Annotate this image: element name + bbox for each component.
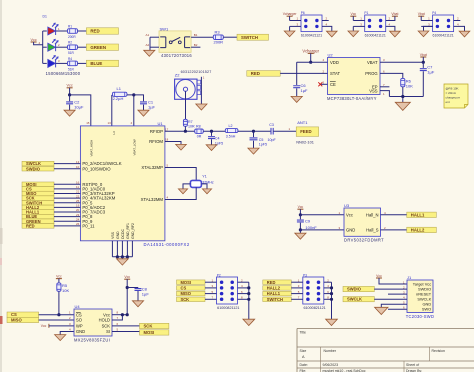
ground (P4 left) xyxy=(418,31,429,37)
svg-text:21: 21 xyxy=(76,190,80,194)
port HALL2 xyxy=(407,227,437,232)
svg-text:CS: CS xyxy=(181,285,187,290)
port MOSI (U1 side) xyxy=(22,182,54,187)
wire P4 pin3 to ground xyxy=(424,26,433,31)
wire RFIOM to ground xyxy=(165,142,181,145)
port SWITCH (P3) xyxy=(263,297,292,302)
wire LED cathode 2 xyxy=(56,46,68,48)
wire MOSI to U1 xyxy=(54,183,80,185)
svg-text:SWITCH: SWITCH xyxy=(267,297,283,302)
wire U4 SI pin xyxy=(112,331,140,333)
ground (U1) xyxy=(117,259,129,265)
svg-text:150066M153000: 150066M153000 xyxy=(46,71,81,76)
svg-text:C3: C3 xyxy=(269,123,274,127)
ground (P4 right) xyxy=(459,31,470,37)
ground (P2) xyxy=(243,319,255,325)
wire buzzer pins to ground xyxy=(200,77,202,104)
wire HALL2 to P3 xyxy=(291,287,303,289)
svg-text:L1: L1 xyxy=(117,86,122,91)
wire R5 to CS net xyxy=(58,291,60,314)
capacitor C1 xyxy=(140,102,147,104)
svg-text:Sheet of: Sheet of xyxy=(406,363,419,367)
wire J1 GND xyxy=(381,304,407,307)
svg-text:Vcharger: Vcharger xyxy=(302,48,319,53)
svg-text:VSS: VSS xyxy=(369,89,378,94)
ground (U4) xyxy=(55,335,66,341)
wire crystal gnd left xyxy=(183,184,190,189)
IC U3 DRV5032 body xyxy=(344,208,381,236)
wire to C1 xyxy=(134,95,144,101)
svg-text:R8: R8 xyxy=(196,124,201,128)
wire C9 to ground xyxy=(299,230,301,233)
ground (P6 left) xyxy=(284,31,295,37)
crystal Y1 xyxy=(190,180,201,187)
wire SWO stub xyxy=(388,308,407,310)
junction C5 node xyxy=(252,130,255,133)
junction Vcc/C9 xyxy=(299,213,302,216)
wire MISO to U4 xyxy=(39,319,74,321)
svg-text:CS: CS xyxy=(76,312,82,317)
port SCK (U1 side) xyxy=(22,196,54,201)
svg-text:BLUE: BLUE xyxy=(90,61,102,66)
svg-text:MOSI: MOSI xyxy=(144,330,155,335)
svg-text:VSS: VSS xyxy=(111,231,115,239)
svg-text:10R: 10R xyxy=(188,124,195,128)
svg-text:3.5nH: 3.5nH xyxy=(226,134,236,138)
port GREEN xyxy=(86,44,118,50)
capacitor C2 xyxy=(69,95,71,101)
capacitor C4 xyxy=(211,131,213,136)
svg-text:10µF: 10µF xyxy=(74,105,84,110)
svg-text:0R: 0R xyxy=(197,135,202,139)
svg-text:Y1: Y1 xyxy=(202,175,206,179)
svg-text:20: 20 xyxy=(76,208,80,212)
capacitor C9 xyxy=(299,215,301,220)
svg-text:MX25V8035FZUI: MX25V8035FZUI xyxy=(74,337,110,342)
svg-text:VBAT: VBAT xyxy=(367,60,378,65)
wire U3 Vcc pin xyxy=(300,214,344,216)
port RED (charger STAT) xyxy=(247,71,280,77)
svg-text:STAT: STAT xyxy=(330,71,341,76)
port RED xyxy=(86,28,118,34)
svg-text:MOSI: MOSI xyxy=(181,280,191,285)
wire U1 ground pins xyxy=(111,241,113,257)
svg-text:HALL1: HALL1 xyxy=(267,291,281,296)
svg-text:ANT1: ANT1 xyxy=(297,120,308,125)
sheet edge line xyxy=(0,0,2,372)
capacitor C7 xyxy=(422,62,424,68)
resistor R4 xyxy=(68,61,78,66)
svg-text:HALL1: HALL1 xyxy=(411,212,425,217)
wire SWITCH to P3 xyxy=(291,298,303,300)
pin CE no-ERC xyxy=(320,83,327,85)
IC U1 DA14531 body xyxy=(80,126,164,241)
LED D1 green element xyxy=(48,43,56,51)
IC U4 MX25V8035 body xyxy=(74,309,112,336)
svg-text:SWO: SWO xyxy=(422,307,431,312)
port SWCLK xyxy=(22,161,54,166)
svg-text:1µF: 1µF xyxy=(301,88,309,93)
ground (C4) xyxy=(206,145,217,151)
wire U4 Vcc pin xyxy=(112,314,127,316)
svg-text:VDD: VDD xyxy=(330,60,339,65)
svg-text:Vcc: Vcc xyxy=(103,312,110,317)
svg-text:23: 23 xyxy=(76,213,80,217)
svg-text:26: 26 xyxy=(76,222,80,226)
svg-text:SI: SI xyxy=(106,329,110,334)
svg-text:@R6 10K: @R6 10K xyxy=(446,86,459,90)
svg-text:MCP73830LT-0AAI/MYY: MCP73830LT-0AAI/MYY xyxy=(327,96,377,101)
inductor L2 xyxy=(225,129,238,133)
wire SWITCH to U1 xyxy=(54,202,80,204)
svg-text:SCK: SCK xyxy=(102,324,111,329)
svg-text:RED: RED xyxy=(26,223,35,228)
wire LX xyxy=(111,95,113,126)
svg-text:2.2µH: 2.2µH xyxy=(113,96,124,101)
resistor R2 xyxy=(68,45,78,50)
wire nRESET stub xyxy=(388,293,407,295)
junction C9/GND xyxy=(299,228,302,231)
wire HALL2 to U1 xyxy=(54,206,80,208)
svg-text:61000421121: 61000421121 xyxy=(433,34,454,38)
svg-text:TC2030-SWD: TC2030-SWD xyxy=(406,314,434,319)
header P2 body xyxy=(217,277,238,304)
svg-text:Size: Size xyxy=(300,349,307,353)
svg-text:HALL2: HALL2 xyxy=(267,285,281,290)
svg-text:16: 16 xyxy=(76,181,80,185)
svg-text:430172073016: 430172073016 xyxy=(161,53,192,58)
svg-text:R3: R3 xyxy=(215,30,221,35)
svg-text:10pF: 10pF xyxy=(268,138,277,142)
port SWITCH xyxy=(237,34,269,40)
port SCK (P2) xyxy=(177,297,206,302)
header P1 pin4 to ground xyxy=(386,26,395,31)
junction gnd bus xyxy=(401,95,404,98)
wire Hall_N xyxy=(381,214,407,216)
ground (P6 right) xyxy=(326,31,337,37)
ground (RFIOM) xyxy=(176,144,187,150)
port HALL2 (P3) xyxy=(263,286,292,291)
svg-text:15: 15 xyxy=(86,121,90,125)
port HALL1 (U1 side) xyxy=(22,210,54,215)
port MOSI (P2) xyxy=(177,280,206,285)
svg-text:10K: 10K xyxy=(406,83,413,88)
svg-text:1pF5: 1pF5 xyxy=(259,143,267,147)
header P4 right pins xyxy=(454,20,461,22)
port CS (U1 side) xyxy=(22,187,54,192)
svg-text:51R: 51R xyxy=(68,51,75,55)
svg-text:DCDC: DCDC xyxy=(121,229,125,239)
svg-text:XTAL32MP: XTAL32MP xyxy=(141,165,163,170)
wire P6 pin3 to ground xyxy=(289,26,291,31)
svg-text:GND_RF1: GND_RF1 xyxy=(126,223,130,239)
svg-text:Hall_S: Hall_S xyxy=(366,228,379,233)
svg-text:24: 24 xyxy=(76,217,80,221)
wire P1 pin3 to ground xyxy=(352,26,354,31)
svg-text:SO: SO xyxy=(76,318,82,323)
svg-text:chargecurr: chargecurr xyxy=(446,96,460,100)
svg-text:Hall_N: Hall_N xyxy=(366,212,379,217)
svg-text:Revision: Revision xyxy=(432,349,445,353)
svg-text:1µF: 1µF xyxy=(148,105,156,110)
header P3 body xyxy=(303,277,324,304)
wire R2 to port xyxy=(78,46,87,48)
port SWCLK (J1) xyxy=(343,297,374,302)
port CS (P2) xyxy=(177,286,206,291)
svg-text:Vcc: Vcc xyxy=(41,324,47,328)
svg-text:LX: LX xyxy=(112,131,116,135)
svg-text:DA14531-00000FX2: DA14531-00000FX2 xyxy=(144,242,190,247)
junction U4 Vcc xyxy=(126,313,129,316)
svg-text:Number: Number xyxy=(324,349,337,353)
svg-text:22: 22 xyxy=(76,194,80,198)
port SWITCH (U1 side) xyxy=(22,200,54,205)
wire U4 HOLD pin xyxy=(112,315,122,320)
ground (U3) xyxy=(295,233,306,239)
buzzer Z2 body xyxy=(175,79,197,99)
resistor R6 xyxy=(401,78,405,86)
port SWDIO (J1) xyxy=(343,286,374,291)
inductor L1 xyxy=(112,92,127,96)
svg-text:61000421121: 61000421121 xyxy=(301,34,322,38)
svg-text:200R: 200R xyxy=(68,35,76,39)
svg-text:RED: RED xyxy=(267,280,276,285)
junction Vcharger/VDD xyxy=(309,61,312,64)
svg-text:GND: GND xyxy=(116,231,120,239)
svg-text:25: 25 xyxy=(76,199,80,203)
wire Vcc to VBAT_HIGH xyxy=(70,95,91,126)
svg-text:RFIOP: RFIOP xyxy=(150,129,163,134)
wire GREEN to U1 xyxy=(54,220,80,222)
connector J1 body xyxy=(407,280,433,313)
ground (P1 left) xyxy=(348,31,359,37)
port MISO (P2) xyxy=(177,291,206,296)
svg-text:NN02-101: NN02-101 xyxy=(296,140,314,145)
junction L1 out xyxy=(132,93,135,96)
header P1 left pins xyxy=(353,20,364,22)
wire SCK to P2 xyxy=(205,298,217,300)
wire RED to P3 xyxy=(291,281,303,283)
svg-text:61000421121: 61000421121 xyxy=(365,34,386,38)
svg-text:100nF: 100nF xyxy=(305,225,317,230)
junction R5/CS xyxy=(57,313,60,316)
svg-text:9/06/2023: 9/06/2023 xyxy=(323,363,339,367)
svg-text:HOLD: HOLD xyxy=(99,318,110,323)
wire LED cathode 1 xyxy=(56,30,68,32)
header P1 body xyxy=(365,15,386,32)
wire B1 to R3 xyxy=(191,36,213,38)
junction Vcc node xyxy=(68,93,71,96)
wire R1 to port xyxy=(78,30,87,32)
svg-text:18: 18 xyxy=(165,138,169,142)
svg-text:B1: B1 xyxy=(194,33,198,37)
svg-text:R2: R2 xyxy=(68,41,72,45)
ground (U2) xyxy=(395,102,410,110)
port GREEN (U1 side) xyxy=(22,219,54,224)
svg-text:P0_11: P0_11 xyxy=(82,223,95,228)
port BLUE (U1 side) xyxy=(22,214,54,219)
wire CS to U1 xyxy=(54,188,80,190)
svg-text:C5: C5 xyxy=(259,138,264,142)
wire R6 to gnd bus xyxy=(402,87,404,97)
port SWDIO xyxy=(22,166,54,171)
resistor R8 xyxy=(195,129,204,133)
svg-text:VBAT_LOW: VBAT_LOW xyxy=(133,139,137,155)
svg-text:10: 10 xyxy=(76,165,80,169)
IC U2 MCP73830 body xyxy=(328,58,381,95)
wire STAT xyxy=(280,72,327,74)
wire SWCLK xyxy=(54,163,80,165)
svg-text:Vcc: Vcc xyxy=(298,205,304,209)
svg-text:VBAT_HIGH: VBAT_HIGH xyxy=(89,140,93,157)
svg-text:C4: C4 xyxy=(215,136,220,140)
wire EP/VSS xyxy=(380,86,389,88)
svg-text:Z2: Z2 xyxy=(175,73,180,78)
svg-text:Vcc: Vcc xyxy=(67,84,73,88)
svg-text:Vbat: Vbat xyxy=(391,12,398,16)
wire L2 to C3 xyxy=(238,130,271,132)
wire RFIOP xyxy=(165,130,195,132)
svg-text:SWDIO: SWDIO xyxy=(347,287,362,292)
wire SWCLK to J1 xyxy=(374,298,407,300)
wire MISO to U1 xyxy=(54,193,80,195)
svg-text:13: 13 xyxy=(108,121,112,125)
resistor R7 xyxy=(183,119,187,126)
wire U3 GND pin xyxy=(300,229,344,231)
svg-text:GND: GND xyxy=(76,329,85,334)
wire R3 to SWITCH port xyxy=(223,36,237,38)
buzzer right pins xyxy=(197,80,201,84)
wire crystal gnd right xyxy=(201,184,207,189)
junction Vcc/C8 xyxy=(126,286,129,289)
wire ground bus U2 xyxy=(389,96,423,98)
svg-text:60312202101527: 60312202101527 xyxy=(181,70,212,74)
svg-text:Vbat: Vbat xyxy=(418,12,425,16)
wire L1 to VBAT_LOW xyxy=(127,95,134,126)
junction C4 node xyxy=(210,130,213,133)
wire VBAT xyxy=(380,61,423,63)
wire R4 to port xyxy=(78,62,87,64)
svg-text:10K: 10K xyxy=(62,288,69,293)
header P2 right pins to ground xyxy=(238,281,249,283)
ground (C1) xyxy=(138,110,149,116)
svg-text:GND: GND xyxy=(346,228,355,233)
svg-text:HALL2: HALL2 xyxy=(411,227,425,232)
port RED (U1 side) xyxy=(22,224,54,229)
svg-text:Vcc: Vcc xyxy=(31,38,37,42)
svg-text:RED: RED xyxy=(90,29,99,34)
switch SW1 body xyxy=(159,31,191,52)
port MOSI (U4) xyxy=(140,330,169,335)
svg-text:Vcc: Vcc xyxy=(350,12,356,16)
port HALL1 (P3) xyxy=(263,291,292,296)
wire A1-A2 to ground xyxy=(149,37,151,50)
svg-text:MISO: MISO xyxy=(11,318,22,323)
wire WP xyxy=(49,325,74,327)
svg-text:17: 17 xyxy=(165,127,169,131)
wire Hall_S xyxy=(381,229,407,231)
svg-text:R7: R7 xyxy=(188,120,193,124)
wire XTAL32MP xyxy=(165,168,196,181)
svg-text:Vcc: Vcc xyxy=(124,275,130,279)
svg-text:U4: U4 xyxy=(75,304,81,309)
ground (J1) xyxy=(375,307,388,314)
svg-text:A2: A2 xyxy=(146,43,150,47)
header P6 left pins xyxy=(290,20,301,22)
ground (C5) xyxy=(248,148,259,154)
resistor R1 xyxy=(68,29,78,34)
svg-text:19: 19 xyxy=(76,204,80,208)
svg-text:R1: R1 xyxy=(68,24,72,28)
svg-text:A1: A1 xyxy=(146,33,150,37)
svg-text:B2: B2 xyxy=(194,43,198,47)
svg-text:ent: ent xyxy=(446,100,450,104)
wire MISO to P2 xyxy=(205,293,217,295)
wire HALL1 to P3 xyxy=(291,293,303,295)
wire SCK to U1 xyxy=(54,197,80,199)
svg-text:D1: D1 xyxy=(43,15,47,19)
wire R8 to L2 xyxy=(203,130,225,132)
wire U4 SCK pin xyxy=(112,325,140,327)
title block frame xyxy=(297,329,474,372)
port SCK (U4) xyxy=(140,323,169,328)
svg-text:SCK: SCK xyxy=(144,324,153,329)
ground (SW1) xyxy=(144,50,155,56)
resistor R5 xyxy=(57,283,61,291)
svg-text:61000821121: 61000821121 xyxy=(303,306,325,310)
ground (P3) xyxy=(326,319,338,325)
svg-text:CE: CE xyxy=(330,82,336,87)
port BLUE xyxy=(86,60,118,66)
svg-text:200R: 200R xyxy=(214,39,224,44)
capacitor C5 xyxy=(253,131,255,137)
svg-text:FEED: FEED xyxy=(300,129,311,134)
header P6 right pins xyxy=(322,20,329,22)
junction HOLD tie xyxy=(121,313,124,316)
svg-text:1µF: 1µF xyxy=(142,292,150,297)
port HALL1 xyxy=(407,212,437,217)
wire HALL1 to U1 xyxy=(54,211,80,213)
svg-text:U3: U3 xyxy=(344,203,350,208)
wire C3 to FEED xyxy=(273,130,296,132)
svg-text:Vcc: Vcc xyxy=(346,212,353,217)
header P6 body xyxy=(301,15,322,32)
svg-text:Title: Title xyxy=(300,331,307,335)
svg-text:Date:: Date: xyxy=(300,363,308,367)
junction Vbat/C7 xyxy=(422,61,425,64)
port MISO (U1 side) xyxy=(22,191,54,196)
svg-text:Vbat: Vbat xyxy=(420,53,427,57)
ground (Y1 right) xyxy=(202,189,211,194)
svg-text:SWDIO: SWDIO xyxy=(26,166,41,171)
note charge current xyxy=(444,84,468,108)
port HALL2 (U1 side) xyxy=(22,205,54,210)
svg-text:SWCLK: SWCLK xyxy=(347,297,362,302)
svg-text:= 20mA: = 20mA xyxy=(446,91,456,95)
wire XTAL32MM xyxy=(165,187,196,199)
svg-text:GND_RF2: GND_RF2 xyxy=(131,223,135,239)
svg-text:Vcharger: Vcharger xyxy=(283,12,298,16)
port FEED (antenna) xyxy=(296,127,318,136)
header P4 left pins xyxy=(421,20,432,22)
header P4 body xyxy=(433,15,454,32)
svg-text:Vcc: Vcc xyxy=(376,274,382,278)
svg-text:R4: R4 xyxy=(68,57,72,61)
wire SWDIO xyxy=(54,168,80,170)
wire CS to U4 xyxy=(39,314,74,316)
svg-text:1µF: 1µF xyxy=(427,70,435,75)
port CS (U4) xyxy=(7,312,39,317)
